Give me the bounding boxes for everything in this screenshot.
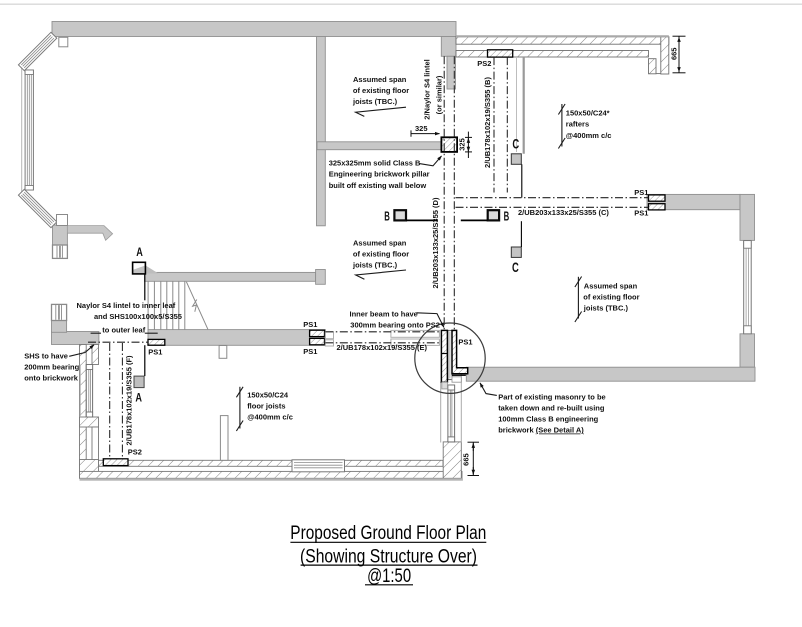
svg-text:PS1: PS1 [148,347,162,356]
svg-text:B: B [504,208,510,223]
svg-text:B: B [384,208,390,223]
svg-text:2/UB203x133x25/S355 (C): 2/UB203x133x25/S355 (C) [518,208,609,217]
svg-text:300mm bearing onto PS2: 300mm bearing onto PS2 [350,320,440,329]
svg-text:PS1: PS1 [303,320,317,329]
svg-text:joists (TBC.): joists (TBC.) [352,260,398,269]
svg-text:to outer leaf: to outer leaf [102,326,145,335]
svg-text:of existing floor: of existing floor [353,86,409,95]
svg-text:rafters: rafters [566,120,589,129]
svg-text:Engineering brickwork pillar: Engineering brickwork pillar [329,170,430,179]
svg-text:@400mm c/c: @400mm c/c [566,131,612,140]
svg-text:325x325mm solid Class B: 325x325mm solid Class B [329,159,421,168]
svg-text:150x50/C24: 150x50/C24 [247,391,289,400]
svg-text:brickwork (See Detail A): brickwork (See Detail A) [498,426,584,435]
svg-text:A: A [135,393,142,405]
svg-text:(Showing Structure Over): (Showing Structure Over) [300,546,477,567]
svg-text:and SHS100x100x5/S355: and SHS100x100x5/S355 [94,312,182,321]
svg-text:C: C [512,135,519,151]
svg-text:@400mm c/c: @400mm c/c [247,413,293,422]
svg-text:(or similar): (or similar) [435,75,444,114]
svg-text:A: A [136,247,143,259]
svg-text:2/UB178x102x19/S355 (E): 2/UB178x102x19/S355 (E) [337,343,428,352]
svg-text:665: 665 [670,48,679,61]
svg-text:floor joists: floor joists [247,402,285,411]
svg-text:Assumed span: Assumed span [584,282,638,291]
svg-text:Assumed span: Assumed span [353,75,407,84]
svg-text:PS1: PS1 [458,338,472,347]
svg-text:665: 665 [462,453,471,466]
svg-text:PS1: PS1 [303,347,317,356]
svg-text:of existing floor: of existing floor [353,250,409,259]
svg-text:Assumed span: Assumed span [353,239,407,248]
svg-text:Naylor S4 lintel to inner leaf: Naylor S4 lintel to inner leaf [77,301,176,310]
svg-text:@1:50: @1:50 [367,566,411,587]
svg-text:onto brickwork: onto brickwork [24,374,79,383]
svg-text:Proposed Ground Floor Plan: Proposed Ground Floor Plan [290,523,486,544]
svg-text:100mm Class B engineering: 100mm Class B engineering [498,415,598,424]
svg-text:PS2: PS2 [128,448,142,457]
svg-text:SHS to have: SHS to have [24,351,68,360]
svg-text:2/UB203x133x25/S355 (D): 2/UB203x133x25/S355 (D) [431,197,440,288]
svg-text:joists (TBC.): joists (TBC.) [583,304,629,313]
svg-text:2/Naylor S4 lintel: 2/Naylor S4 lintel [422,59,431,119]
svg-text:built off existing wall below: built off existing wall below [329,181,427,190]
svg-text:PS1: PS1 [634,188,648,197]
svg-text:325: 325 [458,138,467,151]
svg-text:Part of existing masonry to be: Part of existing masonry to be [498,393,606,402]
svg-text:C: C [512,259,519,275]
svg-text:taken down and re-built using: taken down and re-built using [498,404,605,413]
svg-text:325: 325 [415,124,428,133]
svg-text:200mm bearing: 200mm bearing [24,362,79,371]
svg-text:of existing floor: of existing floor [583,293,639,302]
svg-text:PS1: PS1 [634,208,648,217]
svg-text:PS2: PS2 [477,59,491,68]
svg-text:joists (TBC.): joists (TBC.) [352,97,398,106]
svg-text:150x50/C24*: 150x50/C24* [566,109,610,118]
svg-text:Inner beam to have: Inner beam to have [350,309,418,318]
svg-text:2/UB178x102x19/S355 (F): 2/UB178x102x19/S355 (F) [124,355,133,446]
svg-text:2/UB178x102x19/S355 (B): 2/UB178x102x19/S355 (B) [483,77,492,168]
